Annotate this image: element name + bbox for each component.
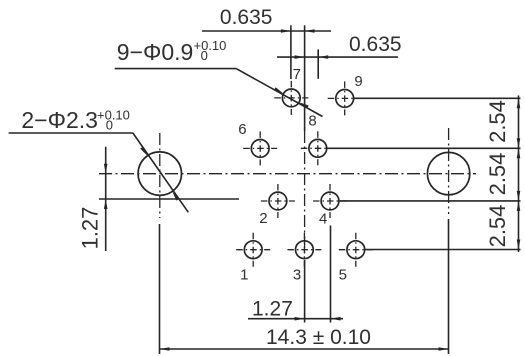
svg-text:2: 2 bbox=[259, 210, 267, 227]
leader underline 2-Phi2.3 bbox=[9, 132, 133, 134]
svg-text:1.27: 1.27 bbox=[252, 298, 293, 321]
svg-text:9−Φ0.9: 9−Φ0.9 bbox=[117, 39, 194, 65]
arrowhead down at row C bbox=[517, 191, 521, 201]
hole 6 crosshair bbox=[243, 147, 277, 149]
main vertical centerline (dash-dot middle part) bbox=[304, 131, 306, 257]
svg-text:+0.10: +0.10 bbox=[194, 38, 227, 53]
left mounting hole vertical centerline bbox=[159, 133, 161, 218]
leader arrowhead at left hole lower edge bbox=[172, 191, 179, 200]
extension line row C (from hole 4) bbox=[339, 200, 520, 202]
svg-text:0: 0 bbox=[106, 117, 113, 132]
hole 9 crosshair bbox=[328, 97, 362, 99]
arrowhead up at row A bbox=[517, 98, 521, 108]
hole 3 circle (Phi 0.9) bbox=[296, 241, 314, 259]
svg-text:0.635: 0.635 bbox=[220, 6, 273, 29]
dimension line 0.635 (second) bbox=[277, 56, 398, 58]
extension line 1.27 left bbox=[99, 198, 239, 200]
svg-text:9: 9 bbox=[354, 73, 362, 90]
svg-text:2.54: 2.54 bbox=[485, 100, 510, 143]
right mounting hole vertical centerline bbox=[448, 128, 450, 214]
svg-text:1: 1 bbox=[240, 266, 248, 283]
arrowhead down at row D bbox=[517, 240, 521, 250]
svg-text:6: 6 bbox=[238, 121, 246, 138]
hole 7 crosshair bbox=[274, 97, 308, 99]
hole 1 crosshair bbox=[236, 249, 270, 251]
arrowhead up at row C line bbox=[104, 199, 108, 209]
svg-text:7: 7 bbox=[293, 66, 301, 83]
svg-text:14.3 ± 0.10: 14.3 ± 0.10 bbox=[266, 326, 371, 349]
svg-text:2−Φ2.3: 2−Φ2.3 bbox=[21, 107, 98, 133]
hole 2 crosshair bbox=[261, 200, 295, 202]
extension line hole-7 column bbox=[290, 25, 292, 79]
hole 8 crosshair bbox=[301, 147, 335, 149]
hole 5 crosshair bbox=[339, 249, 373, 251]
arrowhead down at centerline bbox=[104, 164, 108, 174]
arrowhead down at row B bbox=[517, 138, 521, 148]
leader diagonal 2-Phi2.3 bbox=[133, 133, 188, 212]
hole 2 circle (Phi 0.9) bbox=[269, 192, 287, 210]
extension line row D (from hole 5) bbox=[365, 249, 521, 251]
arrowhead right at 14.3 bbox=[439, 347, 449, 351]
hole 6 circle (Phi 0.9) bbox=[251, 140, 269, 158]
dimension line 1.27 left (vertical) bbox=[105, 147, 107, 251]
arrowhead at centerline bbox=[305, 29, 315, 33]
svg-text:+0.10: +0.10 bbox=[97, 107, 130, 122]
hole 9 circle (Phi 0.9) bbox=[336, 90, 354, 108]
extension line below hole 4 bbox=[330, 226, 332, 323]
main horizontal centerline bbox=[99, 173, 476, 175]
leader underline 9-Phi0.9 bbox=[115, 68, 237, 70]
svg-text:4: 4 bbox=[319, 211, 327, 228]
hole 8 circle (Phi 0.9) bbox=[309, 139, 327, 157]
leader arrowhead at left hole upper edge bbox=[140, 147, 147, 156]
extension line hole-8 column bbox=[317, 49, 319, 78]
arrowhead at hole-4 extension bbox=[331, 317, 341, 321]
arrowhead up at row C bbox=[517, 201, 521, 211]
arrowhead up at row B bbox=[517, 148, 521, 158]
extension line left mounting hole bbox=[159, 224, 161, 354]
arrowhead at hole-3 extension bbox=[295, 317, 305, 321]
extension line row B (from hole 8) bbox=[327, 147, 521, 149]
hole 1 circle (Phi 0.9) bbox=[244, 241, 262, 259]
svg-text:3: 3 bbox=[293, 266, 301, 283]
leader arrowhead at hole 7 upper edge bbox=[274, 87, 284, 93]
svg-text:0.635: 0.635 bbox=[349, 33, 402, 56]
extension line below hole 3 bbox=[304, 260, 306, 323]
svg-text:1.27: 1.27 bbox=[78, 207, 103, 250]
arrowhead at centerline (second dim) bbox=[295, 55, 305, 59]
svg-text:8: 8 bbox=[308, 113, 316, 130]
dimension line 1.27 bottom bbox=[248, 318, 343, 320]
extension line right mounting hole bbox=[448, 219, 450, 354]
hole 4 crosshair bbox=[313, 200, 347, 202]
hole 4 circle (Phi 0.9) bbox=[321, 192, 339, 210]
arrowhead at hole-8 extension bbox=[318, 55, 328, 59]
hole 7 circle (Phi 0.9) bbox=[282, 89, 300, 107]
svg-text:2.54: 2.54 bbox=[485, 205, 510, 248]
arrowhead left at 14.3 bbox=[160, 347, 170, 351]
right mounting hole circle (Phi 2.3) bbox=[427, 152, 469, 194]
dimension line 0.635 (first) bbox=[202, 30, 331, 32]
extension line center column (top solid part) bbox=[304, 25, 306, 131]
left mounting hole circle (Phi 2.3) bbox=[138, 152, 181, 195]
leader arrowhead at hole 7 lower edge bbox=[299, 102, 309, 108]
dimension line 2.54 chain (vertical) bbox=[518, 96, 520, 253]
hole 5 circle (Phi 0.9) bbox=[347, 241, 365, 259]
extension line row A (from hole 9) bbox=[354, 97, 521, 99]
svg-text:5: 5 bbox=[339, 266, 347, 283]
svg-text:0: 0 bbox=[201, 48, 208, 63]
hole 3 crosshair bbox=[287, 249, 321, 251]
arrowhead at hole-7 extension bbox=[281, 29, 291, 33]
svg-text:2.54: 2.54 bbox=[485, 153, 510, 196]
leader diagonal 9-Phi0.9 bbox=[236, 69, 322, 117]
dimension line 14.3 bbox=[160, 348, 449, 350]
